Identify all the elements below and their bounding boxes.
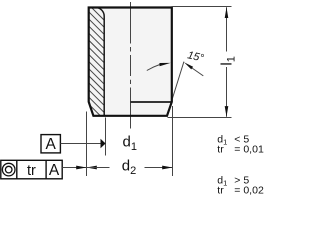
arrow pointing right at left ext [76, 166, 86, 170]
part body fill [89, 8, 172, 116]
svg-text:tr: tr [217, 184, 224, 196]
l1 arrow top [225, 7, 229, 18]
15 deg construction line [167, 62, 184, 115]
hatching (section lines) [84, 0, 110, 140]
angular dim left arrow [147, 65, 160, 71]
d1 extension line [105, 118, 107, 156]
datum triangle [101, 139, 106, 149]
svg-text:A: A [46, 136, 57, 153]
d2 dimension line left part with left-pointing arrow [87, 166, 97, 170]
svg-text:tr: tr [27, 163, 36, 179]
feature control frame [1, 160, 62, 179]
part outline [89, 8, 172, 116]
d2 dimension line right part [145, 167, 173, 169]
d2 right extension line [172, 106, 174, 176]
l1 arrow bottom [225, 106, 229, 117]
l1 top extension line [172, 6, 232, 8]
l1 dimension line [226, 7, 228, 51]
concentricity symbol [2, 163, 15, 176]
svg-text:tr: tr [217, 143, 224, 155]
d2 left extension line [86, 112, 88, 177]
arrow pointing right at right ext [162, 166, 172, 170]
bore wall with rounded top corner [95, 7, 104, 115]
inner step line (chamfer edge) [131, 101, 172, 103]
svg-text:A: A [49, 162, 60, 179]
centerline [130, 2, 132, 129]
datum leader [61, 143, 102, 145]
d2 leader from frame [62, 167, 86, 169]
datum A box [41, 135, 60, 153]
svg-text:= 0,01: = 0,01 [234, 143, 264, 155]
l1 bottom extension line [168, 117, 232, 119]
angular dim right arrow [192, 68, 203, 76]
svg-text:= 0,02: = 0,02 [234, 184, 264, 196]
